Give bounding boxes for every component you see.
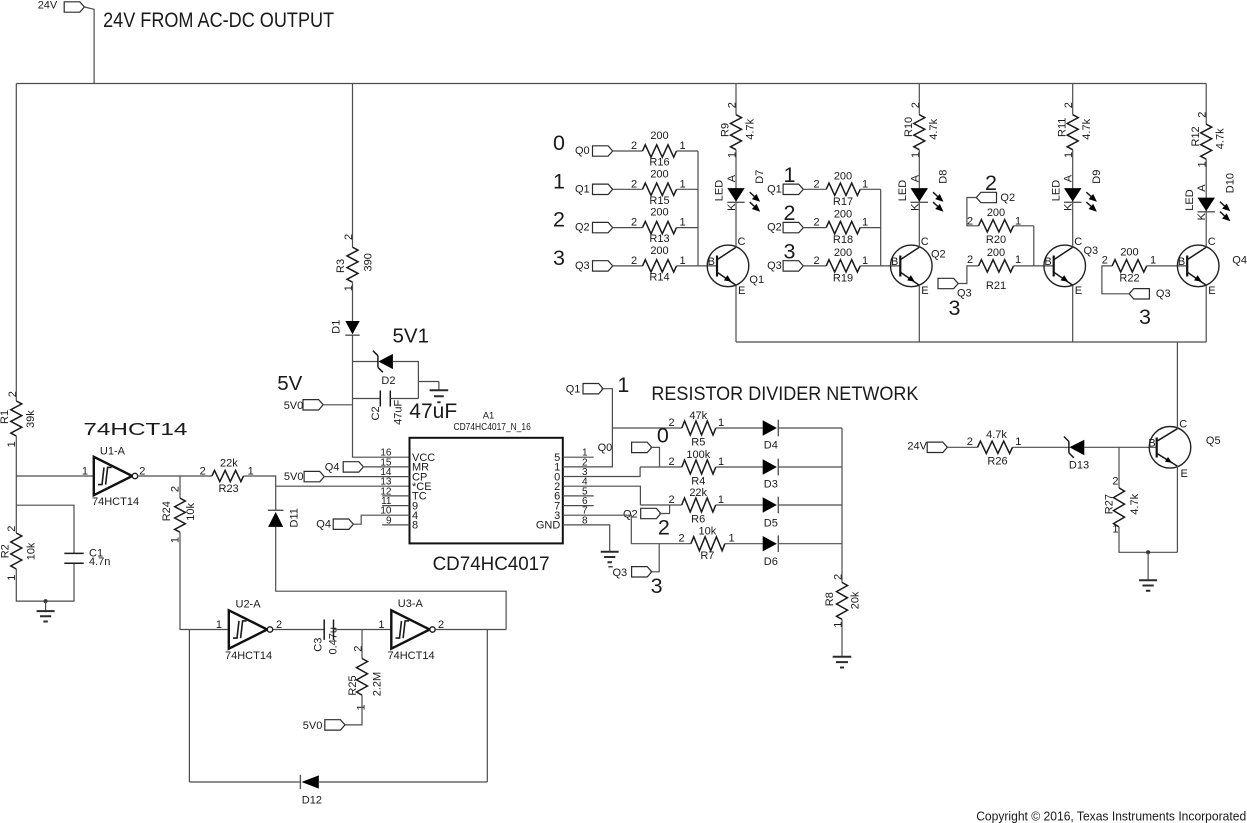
wire base node to R27 bbox=[1118, 447, 1120, 488]
svg-text:2: 2 bbox=[967, 436, 973, 448]
junction dot C1/R2 ground bbox=[44, 599, 48, 603]
capacitor C1 4.7n bbox=[64, 552, 83, 554]
svg-text:C2: C2 bbox=[370, 406, 382, 420]
svg-text:200: 200 bbox=[650, 130, 668, 142]
svg-text:24V: 24V bbox=[38, 0, 58, 12]
resistor R11 4.7k bbox=[1072, 84, 1074, 115]
svg-text:1: 1 bbox=[910, 152, 922, 158]
svg-text:1: 1 bbox=[784, 163, 796, 187]
svg-text:C: C bbox=[1179, 419, 1187, 431]
svg-text:Q1: Q1 bbox=[575, 183, 590, 195]
svg-text:10k: 10k bbox=[699, 526, 717, 538]
svg-text:1: 1 bbox=[679, 140, 685, 152]
wire R17 to bus bbox=[860, 188, 881, 190]
svg-text:1: 1 bbox=[378, 619, 384, 631]
svg-text:Q2: Q2 bbox=[623, 508, 638, 520]
svg-text:1: 1 bbox=[718, 494, 724, 506]
wire R4 to D3 bbox=[716, 466, 763, 468]
svg-text:R4: R4 bbox=[691, 476, 705, 488]
inverter U3-A 74HCT14 bbox=[391, 610, 429, 648]
wire R7 to D6 bbox=[725, 543, 763, 545]
svg-text:200: 200 bbox=[834, 247, 852, 259]
svg-text:2: 2 bbox=[967, 254, 973, 266]
svg-text:2: 2 bbox=[170, 486, 182, 492]
svg-text:22k: 22k bbox=[220, 457, 238, 469]
svg-text:Q3: Q3 bbox=[1156, 288, 1171, 300]
svg-text:Q5: Q5 bbox=[1206, 435, 1221, 447]
svg-text:D12: D12 bbox=[302, 795, 322, 807]
svg-text:Q0: Q0 bbox=[598, 442, 613, 454]
svg-text:D4: D4 bbox=[764, 440, 778, 452]
svg-text:0: 0 bbox=[553, 131, 565, 155]
svg-text:A1: A1 bbox=[483, 411, 495, 422]
svg-text:D3: D3 bbox=[764, 479, 778, 491]
svg-text:1: 1 bbox=[862, 178, 868, 190]
svg-text:1: 1 bbox=[679, 178, 685, 190]
zener diode D13 bbox=[1064, 437, 1074, 458]
net flag Q2 (stage3) bbox=[976, 192, 996, 202]
svg-text:A: A bbox=[1063, 174, 1075, 182]
transistor Q2 bbox=[891, 245, 933, 287]
svg-text:1: 1 bbox=[718, 417, 724, 429]
svg-text:8: 8 bbox=[412, 520, 418, 532]
svg-text:200: 200 bbox=[987, 247, 1005, 259]
wire Q3-bar flag to R7 row bbox=[650, 544, 659, 572]
svg-text:4.7k: 4.7k bbox=[1081, 118, 1093, 139]
svg-text:Q4: Q4 bbox=[325, 461, 340, 473]
svg-text:D9: D9 bbox=[1091, 170, 1103, 184]
resistor R1 39k bbox=[11, 401, 22, 436]
svg-text:3: 3 bbox=[784, 239, 796, 263]
svg-text:R9: R9 bbox=[720, 123, 732, 137]
wire D11 to U3 feedback line bbox=[276, 527, 506, 630]
svg-text:1: 1 bbox=[1063, 152, 1075, 158]
wire R24 bottom to U2 input bbox=[180, 532, 229, 629]
svg-text:2: 2 bbox=[813, 255, 819, 267]
svg-text:Q4: Q4 bbox=[1232, 255, 1247, 267]
resistor R2 10k bbox=[11, 533, 22, 569]
zener diode D2 bbox=[373, 351, 383, 373]
svg-text:200: 200 bbox=[987, 207, 1005, 219]
svg-text:4.7k: 4.7k bbox=[1215, 128, 1227, 149]
svg-text:R11: R11 bbox=[1056, 118, 1068, 137]
svg-text:R6: R6 bbox=[691, 514, 705, 526]
svg-text:R25: R25 bbox=[347, 675, 359, 695]
svg-text:C: C bbox=[1074, 236, 1082, 248]
wire Q4 emitter to bottom rail bbox=[1205, 285, 1207, 342]
wire pin 4 to R6 row bbox=[563, 486, 641, 505]
svg-text:1: 1 bbox=[728, 533, 734, 545]
svg-text:2: 2 bbox=[985, 171, 997, 195]
svg-text:R19: R19 bbox=[833, 272, 853, 284]
capacitor C3 0.47u bbox=[323, 620, 325, 640]
wire R8 to ground bbox=[841, 619, 843, 656]
svg-text:K: K bbox=[909, 203, 921, 211]
wire Q2 emitter to bottom rail bbox=[918, 285, 920, 342]
svg-text:1: 1 bbox=[82, 466, 88, 478]
ground (Q5) bbox=[1147, 552, 1149, 580]
diode D3 bbox=[763, 459, 777, 474]
wire flag to R13 bbox=[613, 227, 643, 229]
svg-text:2.2M: 2.2M bbox=[372, 672, 384, 696]
svg-text:2: 2 bbox=[813, 217, 819, 229]
wire 24V flag to R26 bbox=[947, 446, 977, 448]
svg-text:D1: D1 bbox=[331, 320, 343, 334]
svg-text:Q1: Q1 bbox=[749, 274, 764, 286]
svg-text:2: 2 bbox=[631, 178, 637, 190]
svg-text:2: 2 bbox=[1063, 102, 1075, 108]
wire D2 to ground branch bbox=[393, 362, 419, 399]
svg-text:E: E bbox=[1075, 285, 1082, 297]
svg-text:LED: LED bbox=[1184, 189, 1196, 210]
LED D7 bbox=[735, 188, 737, 247]
svg-text:5V0: 5V0 bbox=[284, 400, 304, 412]
wire R27 to emitter rail bbox=[1119, 527, 1177, 552]
svg-text:C: C bbox=[738, 236, 746, 248]
svg-text:2: 2 bbox=[832, 574, 844, 580]
svg-text:R15: R15 bbox=[649, 195, 669, 207]
svg-text:3: 3 bbox=[651, 574, 663, 598]
svg-text:Q4: Q4 bbox=[316, 519, 331, 531]
svg-text:B: B bbox=[1178, 256, 1185, 268]
svg-text:5V: 5V bbox=[277, 372, 302, 395]
wire stage3 bus bbox=[1033, 226, 1035, 266]
svg-text:1: 1 bbox=[862, 217, 868, 229]
svg-text:Q2: Q2 bbox=[575, 222, 590, 234]
svg-text:B: B bbox=[1148, 438, 1155, 450]
wire branch to C1 top bbox=[16, 505, 74, 553]
svg-text:1: 1 bbox=[679, 217, 685, 229]
wire 5V node to VCC pin 16 bbox=[353, 362, 410, 458]
wire Q3 flag to R21 bbox=[958, 266, 979, 284]
transistor Q1 bbox=[707, 245, 749, 287]
wire 24V flag to top rail bbox=[85, 7, 95, 84]
wire pin 3 to R4 row bbox=[563, 467, 640, 477]
svg-text:10k: 10k bbox=[26, 542, 38, 560]
svg-text:2: 2 bbox=[200, 466, 206, 478]
svg-text:2: 2 bbox=[668, 456, 674, 468]
svg-text:4.7k: 4.7k bbox=[1129, 493, 1141, 514]
wire D1 to 5V node bbox=[352, 335, 354, 361]
svg-text:1: 1 bbox=[727, 152, 739, 158]
svg-text:200: 200 bbox=[650, 168, 668, 180]
svg-text:Q3: Q3 bbox=[575, 260, 590, 272]
wire U3 out to feedback corner bbox=[435, 629, 506, 631]
wire flag to R15 bbox=[613, 188, 643, 190]
svg-text:2: 2 bbox=[784, 201, 796, 225]
wire R1 to U1 input node bbox=[15, 436, 17, 476]
svg-text:20k: 20k bbox=[850, 591, 862, 609]
svg-text:390: 390 bbox=[362, 253, 374, 271]
svg-text:100k: 100k bbox=[686, 449, 710, 461]
svg-text:74HCT14: 74HCT14 bbox=[83, 419, 187, 439]
wire Q1 emitter to bottom rail bbox=[735, 285, 737, 342]
svg-text:39k: 39k bbox=[25, 410, 37, 428]
wire node to U1 input bbox=[16, 475, 94, 477]
svg-text:Q1: Q1 bbox=[566, 384, 581, 396]
wire U2 out to C3 bbox=[273, 629, 324, 631]
svg-text:LED: LED bbox=[897, 180, 909, 201]
wire R16 to bus bbox=[677, 150, 699, 152]
wire flag to R19 bbox=[803, 265, 826, 267]
svg-text:Q3: Q3 bbox=[613, 567, 628, 579]
svg-text:D8: D8 bbox=[938, 170, 950, 184]
svg-text:R23: R23 bbox=[219, 483, 239, 495]
svg-text:Copyright © 2016, Texas Instru: Copyright © 2016, Texas Instruments Inco… bbox=[976, 809, 1246, 823]
wire 5V node to D2 bbox=[353, 361, 378, 363]
svg-text:3: 3 bbox=[1139, 305, 1151, 329]
svg-text:200: 200 bbox=[1120, 247, 1138, 259]
svg-text:2: 2 bbox=[910, 102, 922, 108]
svg-text:K: K bbox=[1063, 203, 1075, 211]
svg-text:LED: LED bbox=[714, 180, 726, 201]
wire Q2 flag to R6 row bbox=[659, 505, 669, 514]
svg-text:2: 2 bbox=[352, 646, 364, 652]
wire node down to R2 branch bbox=[15, 476, 17, 533]
svg-text:24V FROM AC-DC OUTPUT: 24V FROM AC-DC OUTPUT bbox=[103, 9, 334, 32]
wire R23 to D11 column bbox=[244, 476, 276, 510]
svg-text:R3: R3 bbox=[335, 259, 347, 273]
ground (5V clamp) bbox=[438, 382, 440, 391]
wire flag to R17 bbox=[803, 188, 826, 190]
wire stage2 base bbox=[881, 265, 901, 267]
svg-text:2: 2 bbox=[631, 255, 637, 267]
wire into R7 bbox=[631, 543, 691, 545]
transistor Q5 bbox=[1149, 427, 1191, 469]
wire D4 to bus bbox=[778, 427, 842, 429]
svg-text:R17: R17 bbox=[833, 196, 853, 208]
svg-text:200: 200 bbox=[650, 245, 668, 257]
svg-text:Q3: Q3 bbox=[957, 288, 972, 300]
svg-text:1: 1 bbox=[1015, 436, 1021, 448]
svg-text:D5: D5 bbox=[764, 518, 778, 530]
svg-text:200: 200 bbox=[834, 209, 852, 221]
svg-text:200: 200 bbox=[650, 207, 668, 219]
svg-text:2: 2 bbox=[343, 234, 355, 240]
svg-text:2: 2 bbox=[967, 215, 973, 227]
svg-text:2: 2 bbox=[7, 391, 19, 397]
svg-text:E: E bbox=[738, 285, 745, 297]
svg-text:2: 2 bbox=[1112, 476, 1118, 488]
svg-text:R14: R14 bbox=[649, 271, 669, 283]
svg-text:1: 1 bbox=[617, 373, 629, 397]
ground (IC GND) bbox=[601, 552, 619, 562]
inverter U1-A 74HCT14 bbox=[94, 457, 132, 495]
svg-text:5V1: 5V1 bbox=[393, 325, 429, 348]
svg-text:Q3: Q3 bbox=[1084, 245, 1099, 257]
svg-text:LED: LED bbox=[1050, 180, 1062, 201]
resistor R3 390 bbox=[347, 247, 358, 282]
net flag Q3-bar (divider) bbox=[608, 566, 613, 568]
svg-text:A: A bbox=[1196, 184, 1208, 192]
svg-text:10k: 10k bbox=[185, 502, 197, 520]
junction dot Q5 ground bbox=[1146, 550, 1150, 554]
svg-text:R1: R1 bbox=[0, 410, 11, 424]
ground (R8) bbox=[833, 657, 852, 668]
svg-text:2: 2 bbox=[1102, 254, 1108, 266]
wire R6 to D5 bbox=[716, 504, 763, 506]
svg-text:D6: D6 bbox=[764, 556, 778, 568]
svg-text:R5: R5 bbox=[691, 437, 705, 449]
svg-text:Q0: Q0 bbox=[575, 145, 590, 157]
wire R3 to D1 bbox=[352, 282, 354, 321]
svg-text:E: E bbox=[921, 285, 928, 297]
wire R19 to bus bbox=[860, 265, 881, 267]
svg-text:K: K bbox=[726, 203, 738, 211]
svg-text:5V0: 5V0 bbox=[284, 471, 304, 483]
wire feedback down to D12 rail bbox=[486, 630, 488, 783]
svg-text:4.7k: 4.7k bbox=[986, 429, 1007, 441]
svg-text:R8: R8 bbox=[824, 592, 836, 606]
svg-text:5V0: 5V0 bbox=[303, 720, 323, 732]
wire Q3 emitter to bottom rail bbox=[1072, 285, 1074, 342]
svg-text:R22: R22 bbox=[1119, 273, 1139, 285]
wire R13 to bus bbox=[677, 227, 699, 229]
svg-text:22k: 22k bbox=[689, 487, 707, 499]
svg-text:3: 3 bbox=[553, 246, 565, 270]
wire Q2 flag to R20 bbox=[967, 198, 979, 226]
wire R18 to bus bbox=[860, 227, 881, 229]
svg-text:R24: R24 bbox=[161, 501, 173, 521]
wire top 24V rail bbox=[16, 83, 1206, 85]
wire Q1 flag / pin 2 / R5 bbox=[563, 389, 613, 467]
svg-text:R10: R10 bbox=[903, 117, 915, 137]
wire divider bus bbox=[841, 428, 843, 582]
svg-text:1: 1 bbox=[862, 255, 868, 267]
svg-text:2: 2 bbox=[658, 516, 670, 540]
wire R2 bottom to ground rail bbox=[16, 563, 74, 601]
svg-text:Q2: Q2 bbox=[931, 249, 946, 261]
wire 5V0 flag to pin 14 bbox=[324, 476, 410, 478]
svg-text:4.7n: 4.7n bbox=[89, 556, 110, 568]
diode D1 bbox=[345, 321, 359, 334]
wire U1 output to R23/R24 node bbox=[138, 475, 212, 477]
wire flag to R14 bbox=[613, 265, 643, 267]
inverter U2-A 74HCT14 bbox=[229, 610, 267, 648]
svg-text:A: A bbox=[909, 174, 921, 182]
svg-text:D10: D10 bbox=[1224, 173, 1236, 193]
svg-text:R7: R7 bbox=[700, 550, 714, 562]
wire rail to R3 bbox=[352, 84, 354, 248]
wire left rail down to R1 bbox=[15, 84, 17, 402]
svg-text:1: 1 bbox=[718, 456, 724, 468]
wire R14 to bus bbox=[677, 265, 699, 267]
svg-text:4.7k: 4.7k bbox=[745, 118, 757, 139]
svg-text:1: 1 bbox=[1197, 161, 1209, 167]
svg-text:2: 2 bbox=[668, 417, 674, 429]
svg-text:Q1: Q1 bbox=[767, 183, 782, 195]
wire stage2 bus bbox=[880, 189, 882, 266]
svg-text:1: 1 bbox=[216, 619, 222, 631]
svg-text:U2-A: U2-A bbox=[236, 599, 262, 611]
svg-text:C: C bbox=[921, 236, 929, 248]
svg-text:2: 2 bbox=[553, 208, 565, 232]
wire Q3 flag to R22 bbox=[1102, 266, 1129, 294]
svg-text:B: B bbox=[1044, 256, 1051, 268]
diode D11 bbox=[268, 509, 284, 511]
svg-text:RESISTOR DIVIDER NETWORK: RESISTOR DIVIDER NETWORK bbox=[651, 384, 918, 405]
svg-text:R2: R2 bbox=[0, 544, 11, 558]
resistor R10 4.7k bbox=[918, 84, 920, 115]
svg-text:47k: 47k bbox=[689, 410, 707, 422]
wire R5 to D4 bbox=[716, 427, 763, 429]
resistor R24 10k bbox=[179, 476, 181, 498]
wire stage1 bus bbox=[697, 151, 699, 266]
svg-text:B: B bbox=[891, 256, 898, 268]
svg-text:B: B bbox=[708, 256, 715, 268]
svg-text:1: 1 bbox=[1015, 254, 1021, 266]
svg-text:74HCT14: 74HCT14 bbox=[92, 496, 139, 508]
svg-text:Q2: Q2 bbox=[767, 222, 782, 234]
diode D4 bbox=[763, 420, 777, 435]
wire CE branch to IC pin 13 bbox=[276, 485, 410, 487]
svg-text:E: E bbox=[1208, 285, 1215, 297]
wire pin 7 to R7 row bbox=[563, 515, 632, 544]
svg-text:2: 2 bbox=[668, 494, 674, 506]
svg-text:2: 2 bbox=[727, 102, 739, 108]
resistor R12 4.7k bbox=[1205, 84, 1207, 125]
diode D12 bbox=[299, 775, 301, 789]
wire D6 to bus bbox=[778, 543, 842, 545]
svg-text:R12: R12 bbox=[1190, 126, 1202, 146]
wire D12 rail right bbox=[319, 781, 488, 783]
svg-text:1: 1 bbox=[553, 169, 565, 193]
svg-text:R26: R26 bbox=[987, 456, 1007, 468]
wire Q0 flag to R4 row bbox=[650, 447, 659, 467]
wire flag to R16 bbox=[613, 150, 643, 152]
wire Q5 emitter down bbox=[1176, 466, 1178, 552]
wire R25 to 5V0 flag bbox=[345, 695, 362, 725]
LED D10 bbox=[1205, 198, 1207, 248]
wire R15 to bus bbox=[677, 188, 699, 190]
svg-text:R16: R16 bbox=[649, 157, 669, 169]
diode D6 bbox=[763, 536, 777, 551]
svg-text:K: K bbox=[1196, 212, 1208, 220]
transistor Q4 bbox=[1177, 245, 1219, 287]
svg-text:C3: C3 bbox=[313, 638, 325, 652]
svg-text:2: 2 bbox=[631, 140, 637, 152]
svg-text:Q3: Q3 bbox=[767, 260, 782, 272]
LED D9 bbox=[1072, 188, 1074, 247]
wire into R6 bbox=[640, 504, 681, 506]
svg-text:0.47u: 0.47u bbox=[328, 627, 340, 655]
wire C3 to U3 input bbox=[334, 629, 392, 631]
svg-text:2: 2 bbox=[813, 178, 819, 190]
svg-text:1: 1 bbox=[1112, 524, 1118, 536]
wire R20 to bus bbox=[1014, 225, 1034, 227]
wire R21 to Q3 base bbox=[1014, 265, 1054, 267]
wire D12 rail left bbox=[189, 781, 300, 783]
svg-text:2: 2 bbox=[631, 217, 637, 229]
svg-text:Q2: Q2 bbox=[1000, 192, 1015, 204]
svg-text:GND: GND bbox=[536, 520, 561, 532]
svg-text:R27: R27 bbox=[1103, 494, 1115, 514]
wire Q4 flag to pin 15 bbox=[363, 466, 410, 468]
svg-text:2: 2 bbox=[678, 533, 684, 545]
svg-text:4.7k: 4.7k bbox=[928, 118, 940, 139]
wire U2 input down to D12 rail bbox=[188, 630, 190, 783]
capacitor C2 47uF bbox=[353, 398, 381, 400]
svg-text:A: A bbox=[726, 174, 738, 182]
IC U A1 CD74HC4017 body bbox=[410, 438, 563, 544]
svg-text:47uF: 47uF bbox=[393, 400, 405, 425]
svg-text:E: E bbox=[1181, 468, 1188, 480]
svg-text:R13: R13 bbox=[649, 233, 669, 245]
LED D8 bbox=[918, 188, 920, 247]
svg-text:2: 2 bbox=[1197, 112, 1209, 118]
svg-text:D7: D7 bbox=[754, 170, 766, 184]
svg-text:R18: R18 bbox=[833, 234, 853, 246]
